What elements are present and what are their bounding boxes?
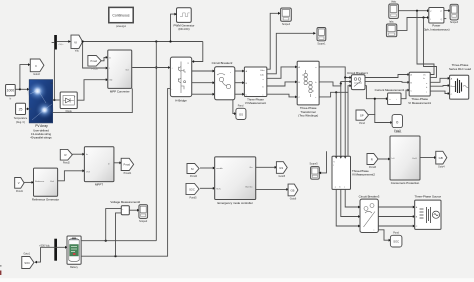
svg-text:VI Measurement2: VI Measurement2 xyxy=(352,173,375,177)
wire tap from CM1 feed xyxy=(374,99,376,115)
wires breaker2 to VI measurement xyxy=(235,70,245,73)
goto tag Goto3 xyxy=(30,59,44,76)
svg-text:VI Measurement: VI Measurement xyxy=(245,101,266,105)
MPP Converter subsystem U3 xyxy=(108,50,132,94)
svg-text:Current Measurement1: Current Measurement1 xyxy=(375,88,405,92)
svg-text:R: R xyxy=(371,157,373,161)
wire down to SOC goto xyxy=(34,247,40,263)
svg-text:SP: SP xyxy=(360,113,364,117)
svg-text:(DC-DC): (DC-DC) xyxy=(178,27,189,31)
svg-text:Irr: Irr xyxy=(86,153,88,156)
svg-text:Scope2: Scope2 xyxy=(139,220,148,223)
wire Pmod to MPP in1 xyxy=(101,56,108,61)
from tag SP xyxy=(356,110,368,125)
circuit breaker CB3 xyxy=(359,194,380,232)
svg-text:H-Bridge: H-Bridge xyxy=(175,99,187,103)
from tag V (PV voltage) xyxy=(15,178,24,193)
from tag Vabc (grid V) xyxy=(389,1,399,19)
from tag R2 (protection in) xyxy=(367,154,378,170)
from tag R (irradiance) xyxy=(60,149,72,164)
three-phase V-I measurement1 U6 xyxy=(408,72,431,105)
junction taps to measurement feeder xyxy=(344,76,346,78)
wire SP to Goto2 xyxy=(368,115,392,124)
three-phase source xyxy=(414,195,441,230)
junction on Ir wire xyxy=(19,88,21,90)
svg-text:Pmod: Pmod xyxy=(124,164,131,167)
junction node at 156,41 xyxy=(155,40,157,42)
wire 1000 to PV Ir input xyxy=(15,88,29,91)
svg-text:Series RLC Load: Series RLC Load xyxy=(449,67,471,71)
from tag Pmod xyxy=(88,56,101,71)
wire VI1 Vo up to power junction xyxy=(417,11,434,75)
wire PV - to MPP bottom xyxy=(53,88,133,112)
wire R to MPPT in1 xyxy=(72,153,85,156)
wires breaker3 to source xyxy=(378,206,415,209)
svg-text:Goto5: Goto5 xyxy=(279,175,286,178)
svg-text:MPPT: MPPT xyxy=(95,183,103,187)
svg-text:Three-Phase Source: Three-Phase Source xyxy=(414,195,441,199)
svg-text:SOC: SOC xyxy=(24,261,30,265)
svg-text:Temperature: Temperature xyxy=(14,117,28,120)
svg-text:13-module string: 13-module string xyxy=(31,132,52,136)
wire CM1 out up to VI1 port C xyxy=(401,89,410,99)
wire M to emergency enable xyxy=(200,167,215,170)
svg-text:Goto1: Goto1 xyxy=(23,252,30,255)
svg-text:Pond: Pond xyxy=(238,105,244,108)
goto tag Pond6 xyxy=(390,232,402,247)
svg-text:MPP Converter: MPP Converter xyxy=(110,90,130,94)
junction at H-bridge + xyxy=(155,66,157,68)
goto tag GS xyxy=(276,162,287,178)
DC busbar node (PV measurement bus) xyxy=(54,35,57,50)
junction on - rail xyxy=(114,255,116,257)
wires transformer to Circuit Breaker1 with taps xyxy=(319,67,352,79)
wire Vabc up to Scope4 xyxy=(267,12,281,69)
PWM Generator (DC-DC) U2 xyxy=(174,8,195,31)
svg-text:VI: VI xyxy=(74,41,77,45)
svg-text:Ir: Ir xyxy=(35,64,37,68)
svg-text:Pmod: Pmod xyxy=(91,68,98,71)
wires H-Bridge to Circuit Breaker2 (3 phases) xyxy=(192,70,215,73)
svg-text:Battery: Battery xyxy=(70,266,78,269)
circuit breaker CB2 xyxy=(212,61,235,100)
wire Bat Go to GB goto xyxy=(256,188,289,191)
wire Iabc to power xyxy=(397,16,430,30)
circuit breaker CB1 xyxy=(347,71,368,90)
svg-text:Pond3: Pond3 xyxy=(369,166,377,169)
junction node at 170,41 xyxy=(169,40,171,42)
wires VI meas to transformer (jogs) xyxy=(267,66,298,79)
three-phase V-I measurement U5 xyxy=(244,67,266,105)
from tag SOC2 xyxy=(186,183,199,199)
svg-text:Scope1: Scope1 xyxy=(317,43,326,46)
wire busbar down to PV + xyxy=(53,50,55,101)
wire Iabc up to Scope1 xyxy=(267,32,316,74)
wire VM2 to Scope2 xyxy=(129,209,139,212)
svg-text:User-defined: User-defined xyxy=(33,128,49,132)
wire PWM input from DC node xyxy=(171,13,178,42)
svg-text:Pond4: Pond4 xyxy=(190,175,198,178)
wire R2 to consumers protection xyxy=(378,158,391,161)
scope Scope5 xyxy=(309,163,319,180)
constant 1000 (irradiance) xyxy=(6,85,16,101)
wire V to reference generator xyxy=(24,181,34,184)
svg-text:Scope3: Scope3 xyxy=(450,21,459,24)
three-phase series RLC load xyxy=(449,63,471,99)
svg-text:Iabc: Iabc xyxy=(389,20,394,23)
svg-text:Goto3: Goto3 xyxy=(33,73,40,76)
svg-text:Scope4: Scope4 xyxy=(282,23,291,26)
wires VI1 to RLC load xyxy=(430,77,450,82)
wire refgen to MPPT in2 xyxy=(58,169,85,180)
reference generator subsystem xyxy=(32,168,59,201)
svg-text:Vref: Vref xyxy=(50,180,54,183)
constant 25 (temperature) xyxy=(14,103,28,124)
battery block xyxy=(67,236,81,269)
wire VM2 + tap to DC+ rail xyxy=(106,209,122,241)
svg-text:GS: GS xyxy=(239,112,243,116)
wire Vabc to power xyxy=(398,9,429,12)
svg-text:Goto6: Goto6 xyxy=(290,197,297,200)
svg-text:Pmod1: Pmod1 xyxy=(124,172,132,175)
wire node H1: Vdc bus horizontal xyxy=(83,41,203,43)
svg-text:<V,I>: <V,I> xyxy=(58,43,64,46)
wire diode out up to MPP in3 xyxy=(77,78,108,100)
wire scope5 input xyxy=(321,151,327,173)
voltage measurement2 block xyxy=(110,200,140,215)
wire tap D down xyxy=(347,92,349,156)
diode boost block D1 xyxy=(60,92,77,113)
svg-text:R: R xyxy=(64,153,66,157)
svg-text:1000: 1000 xyxy=(7,89,15,93)
power measurement block xyxy=(423,8,450,32)
wire Vdc tag node down to MPP in2 xyxy=(83,42,109,70)
svg-text:PV Array: PV Array xyxy=(35,124,48,128)
svg-text:V: V xyxy=(18,181,20,185)
svg-text:GB: GB xyxy=(439,156,443,160)
svg-text:Out1: Out1 xyxy=(412,157,418,160)
wire DC- rail: H-bridge - port down to battery - xyxy=(81,89,170,257)
svg-text:25: 25 xyxy=(19,107,23,111)
svg-text:GB: GB xyxy=(291,188,295,192)
svg-text:enable: enable xyxy=(216,168,223,170)
wire VI1 Io up to power junction xyxy=(424,18,437,78)
junction PV+ xyxy=(53,99,55,101)
scope Scope3 xyxy=(450,4,459,24)
svg-text:Load1: Load1 xyxy=(395,130,403,133)
H-Bridge converter U4 xyxy=(170,57,191,103)
goto tag 0 xyxy=(392,115,402,133)
svg-text:Radiance: Radiance xyxy=(35,181,45,183)
svg-text:Circuit Breaker3: Circuit Breaker3 xyxy=(359,194,380,198)
PV array block xyxy=(27,80,54,140)
svg-text:Vref: Vref xyxy=(86,170,90,173)
consumers protection subsystem xyxy=(390,136,420,185)
junction on + rail xyxy=(105,240,107,242)
wire busbar to battery xyxy=(41,246,68,249)
wires VI2 down to breaker3 xyxy=(336,189,361,227)
svg-text:Pmod: Pmod xyxy=(91,60,98,63)
wires breaker1 to VI measurement1 xyxy=(365,73,410,77)
svg-text:Reference Generator: Reference Generator xyxy=(32,197,59,201)
wire protection out to Goto4 xyxy=(420,156,437,159)
svg-text:m: m xyxy=(51,82,53,85)
wire tap B down xyxy=(340,84,342,157)
svg-text:VI Measurement1: VI Measurement1 xyxy=(408,101,431,105)
svg-text:Vabc: Vabc xyxy=(391,1,397,4)
svg-text:Circuit Breaker2: Circuit Breaker2 xyxy=(212,61,233,65)
svg-text:Consumers Protection: Consumers Protection xyxy=(391,181,420,185)
from tag Iabc (grid I) xyxy=(386,20,396,36)
svg-text:Pond5: Pond5 xyxy=(190,196,198,199)
wire busbar to Vdc goto xyxy=(57,40,71,43)
svg-text:(Two Windings): (Two Windings) xyxy=(298,114,318,118)
wire battery + rail xyxy=(81,240,156,242)
scope Scope4 xyxy=(281,8,292,26)
svg-text:Bat Go: Bat Go xyxy=(246,186,254,189)
svg-text:SOC: SOC xyxy=(189,187,195,191)
goto tag Pmod1 xyxy=(121,158,133,175)
three-phase V-I measurement2 (tall) U7 xyxy=(332,156,375,189)
svg-text:Voltage Measurement2: Voltage Measurement2 xyxy=(110,200,140,204)
svg-text:Pond1: Pond1 xyxy=(16,190,24,193)
goto tag SOC xyxy=(22,252,34,268)
wire MPP Gd out to H-Bridge + port xyxy=(132,66,171,69)
red mark bottom-left edge xyxy=(0,271,1,276)
emergency mode controller subsystem xyxy=(215,157,256,205)
svg-text:40-parallel strings: 40-parallel strings xyxy=(30,136,52,140)
battery busbar node xyxy=(54,239,57,261)
svg-text:Emergency mode controller: Emergency mode controller xyxy=(218,201,253,205)
wire VM2 - tap to DC- rail xyxy=(116,213,122,256)
svg-text:(3ph, Instantaneous): (3ph, Instantaneous) xyxy=(423,27,450,31)
svg-text:powergui: powergui xyxy=(116,25,126,28)
scope Scope1 xyxy=(317,28,326,46)
svg-text:Q: Q xyxy=(441,19,443,21)
svg-text:Continuous: Continuous xyxy=(112,14,129,18)
current measurement1 block xyxy=(375,88,405,104)
svg-text:Pond2: Pond2 xyxy=(63,162,71,165)
wire MPPT out to Pmod1 xyxy=(114,161,122,164)
goto tag Vdc (VI) xyxy=(71,35,83,53)
svg-text:SOC: SOC xyxy=(216,188,221,190)
svg-text:SOC: SOC xyxy=(393,240,399,244)
scope Scope2 xyxy=(139,205,148,223)
wire power to Scope3 xyxy=(444,9,451,12)
wire g-drive to H-Bridge right port xyxy=(192,42,203,63)
goto tag Pond (inverter voltage) xyxy=(236,105,246,120)
wire SOC2 to emergency xyxy=(200,187,215,190)
svg-text:Pond: Pond xyxy=(359,122,365,125)
wire tap A down xyxy=(335,92,337,156)
three-phase transformer T1 xyxy=(297,61,319,117)
wire PV+ to diode xyxy=(53,99,60,101)
powergui block xyxy=(109,7,133,28)
left edge stub wires xyxy=(0,252,2,266)
wire breaker com to Pond goto xyxy=(233,100,237,115)
svg-text:Scope5: Scope5 xyxy=(309,163,318,166)
wire 25 to PV T input xyxy=(26,108,30,111)
wire tap C down xyxy=(344,78,346,157)
wire DC+ rail vertical (PV bus to battery) xyxy=(155,42,157,241)
wire branch up to Goto3 xyxy=(20,63,31,89)
from tag M (mode) xyxy=(187,164,199,179)
svg-text:(Deg. C): (Deg. C) xyxy=(16,121,25,124)
wire breaker1 phase C down to current measurement xyxy=(365,86,389,100)
goto tag GB2 xyxy=(436,151,447,168)
svg-text:GS: GS xyxy=(279,166,283,170)
svg-text:Goto4: Goto4 xyxy=(438,166,445,169)
svg-text:Ir: Ir xyxy=(10,98,12,101)
wire Go to GS goto xyxy=(256,166,278,169)
svg-text:Pond: Pond xyxy=(393,232,399,235)
MPPT subsystem xyxy=(84,147,114,187)
wire breaker3 com to Pond6 xyxy=(378,230,391,242)
goto tag GB xyxy=(288,184,298,200)
